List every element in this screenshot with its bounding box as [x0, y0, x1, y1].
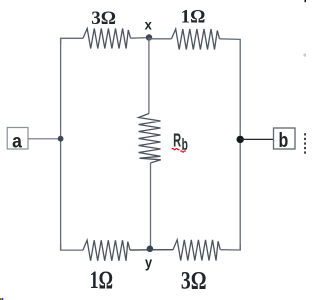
resistor 3Ω (bottom-right)	[173, 240, 220, 261]
wire: b junction to terminal b	[240, 138, 273, 140]
spellcheck squiggle under R	[172, 148, 180, 149]
wire: 1Ω to node y	[130, 249, 150, 251]
svg-text:3Ω: 3Ω	[91, 8, 116, 29]
svg-text:1Ω: 1Ω	[90, 266, 113, 294]
wire: 3Ω to node x	[131, 37, 150, 40]
wire: 3Ω to bottom-right corner	[220, 244, 240, 250]
resistor Rb (middle vertical)	[139, 114, 161, 164]
artifact: faint smudge right edge	[303, 53, 306, 56]
spellcheck squiggle under b	[181, 151, 186, 152]
artifact: RGB icon fragment bottom-left corner	[0, 298, 1, 300]
terminal a box	[7, 128, 28, 150]
node y junction dot	[147, 246, 154, 253]
wire: top segment, left corner to 3Ω	[61, 38, 83, 44]
junction dot at b connection	[237, 136, 244, 143]
artifact: text dashes at right edge	[304, 133, 306, 154]
wire: left vertical side	[60, 38, 62, 250]
svg-text:1Ω: 1Ω	[181, 7, 206, 28]
node x junction dot	[146, 34, 152, 40]
svg-text:3Ω: 3Ω	[181, 267, 207, 295]
artifact: black window fragment top-right corner	[305, 0, 307, 2]
resistor 1Ω (top-right)	[172, 29, 220, 50]
wire: bottom segment, left corner to 1Ω	[61, 244, 83, 250]
resistor 1Ω (bottom-left)	[83, 240, 130, 261]
terminal b box	[274, 128, 296, 149]
svg-text:b: b	[279, 129, 289, 151]
wire: node y to 3Ω	[150, 249, 173, 251]
wire: 1Ω to top-right corner, down right side	[220, 39, 241, 250]
junction dot at a connection	[58, 136, 64, 142]
resistor 3Ω (top-left)	[83, 29, 131, 49]
label Rb	[173, 131, 188, 154]
svg-text:x: x	[145, 17, 153, 33]
wire: Rb down to node y	[150, 163, 152, 249]
wire: node x down to Rb	[148, 38, 150, 114]
svg-text:y: y	[145, 253, 152, 270]
wire: terminal a to left side	[28, 138, 61, 140]
wire: node x to 1Ω	[149, 38, 172, 40]
svg-text:a: a	[12, 130, 23, 152]
